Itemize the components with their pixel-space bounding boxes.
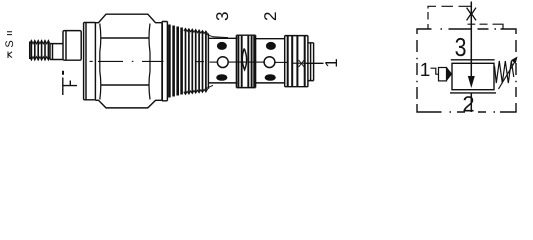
label S (wrench size note, rotated) bbox=[4, 32, 16, 58]
valve square bbox=[452, 63, 494, 89]
spring adjustment arrow bbox=[499, 62, 516, 90]
pilot connection line bbox=[431, 68, 439, 74]
port 3 lower hole bbox=[216, 74, 227, 81]
svg-text:1: 1 bbox=[420, 60, 431, 81]
pilot box bbox=[439, 68, 447, 81]
svg-text:S: S bbox=[4, 40, 16, 47]
infinite-position parallel lines bbox=[450, 60, 496, 93]
flow arrow bbox=[470, 63, 472, 77]
hex facet lines bbox=[101, 38, 149, 85]
groove 2 (port 2 gland) bbox=[256, 39, 285, 83]
pilot triangle bbox=[447, 67, 453, 81]
adjustment screw stem bbox=[50, 44, 63, 60]
svg-text:2: 2 bbox=[462, 92, 474, 117]
port 3 riser line bbox=[470, 2, 472, 64]
svg-text:1: 1 bbox=[322, 58, 341, 67]
pilot orifice cross bbox=[299, 60, 305, 67]
centerline bbox=[90, 61, 324, 63]
shoulder at thread end bbox=[207, 33, 209, 89]
land 2 bbox=[285, 36, 308, 87]
mounting threads bbox=[184, 28, 228, 94]
port 2 lower hole bbox=[265, 74, 276, 81]
spring bbox=[495, 61, 514, 83]
svg-text:3: 3 bbox=[455, 32, 467, 62]
land 2 ring lines bbox=[288, 36, 305, 86]
closed-port chevrons bbox=[467, 8, 476, 21]
vent dashed box (left) bbox=[428, 6, 471, 29]
schematic envelope (dash-dot box) bbox=[417, 29, 516, 112]
groove 1 (port 3 gland) bbox=[208, 38, 237, 83]
pilot dashed line (right) bbox=[468, 24, 504, 29]
adjustment screw head bbox=[63, 31, 81, 61]
nose tip bbox=[308, 43, 314, 81]
port 3 side hole bbox=[217, 57, 228, 68]
port 2 side hole bbox=[264, 57, 275, 68]
hex corner edges bbox=[100, 24, 150, 100]
port 2 upper hole bbox=[266, 42, 276, 50]
land 1 ring lines bbox=[238, 36, 254, 88]
adjustment screw end face bbox=[29, 42, 31, 60]
port 3 upper hole bbox=[217, 42, 227, 50]
adjustment screw threads bbox=[30, 40, 50, 60]
mounting thread rings bbox=[169, 25, 181, 98]
port 2 line bbox=[470, 93, 472, 112]
svg-text:3: 3 bbox=[213, 12, 232, 21]
land 1 seat lens bbox=[242, 49, 246, 70]
jam locknut bbox=[84, 23, 96, 100]
washer bbox=[162, 22, 167, 101]
F mark (staking note) bbox=[62, 72, 77, 95]
land 1 bbox=[236, 35, 255, 87]
svg-text:2: 2 bbox=[261, 12, 280, 21]
hex body outline bbox=[95, 14, 162, 108]
